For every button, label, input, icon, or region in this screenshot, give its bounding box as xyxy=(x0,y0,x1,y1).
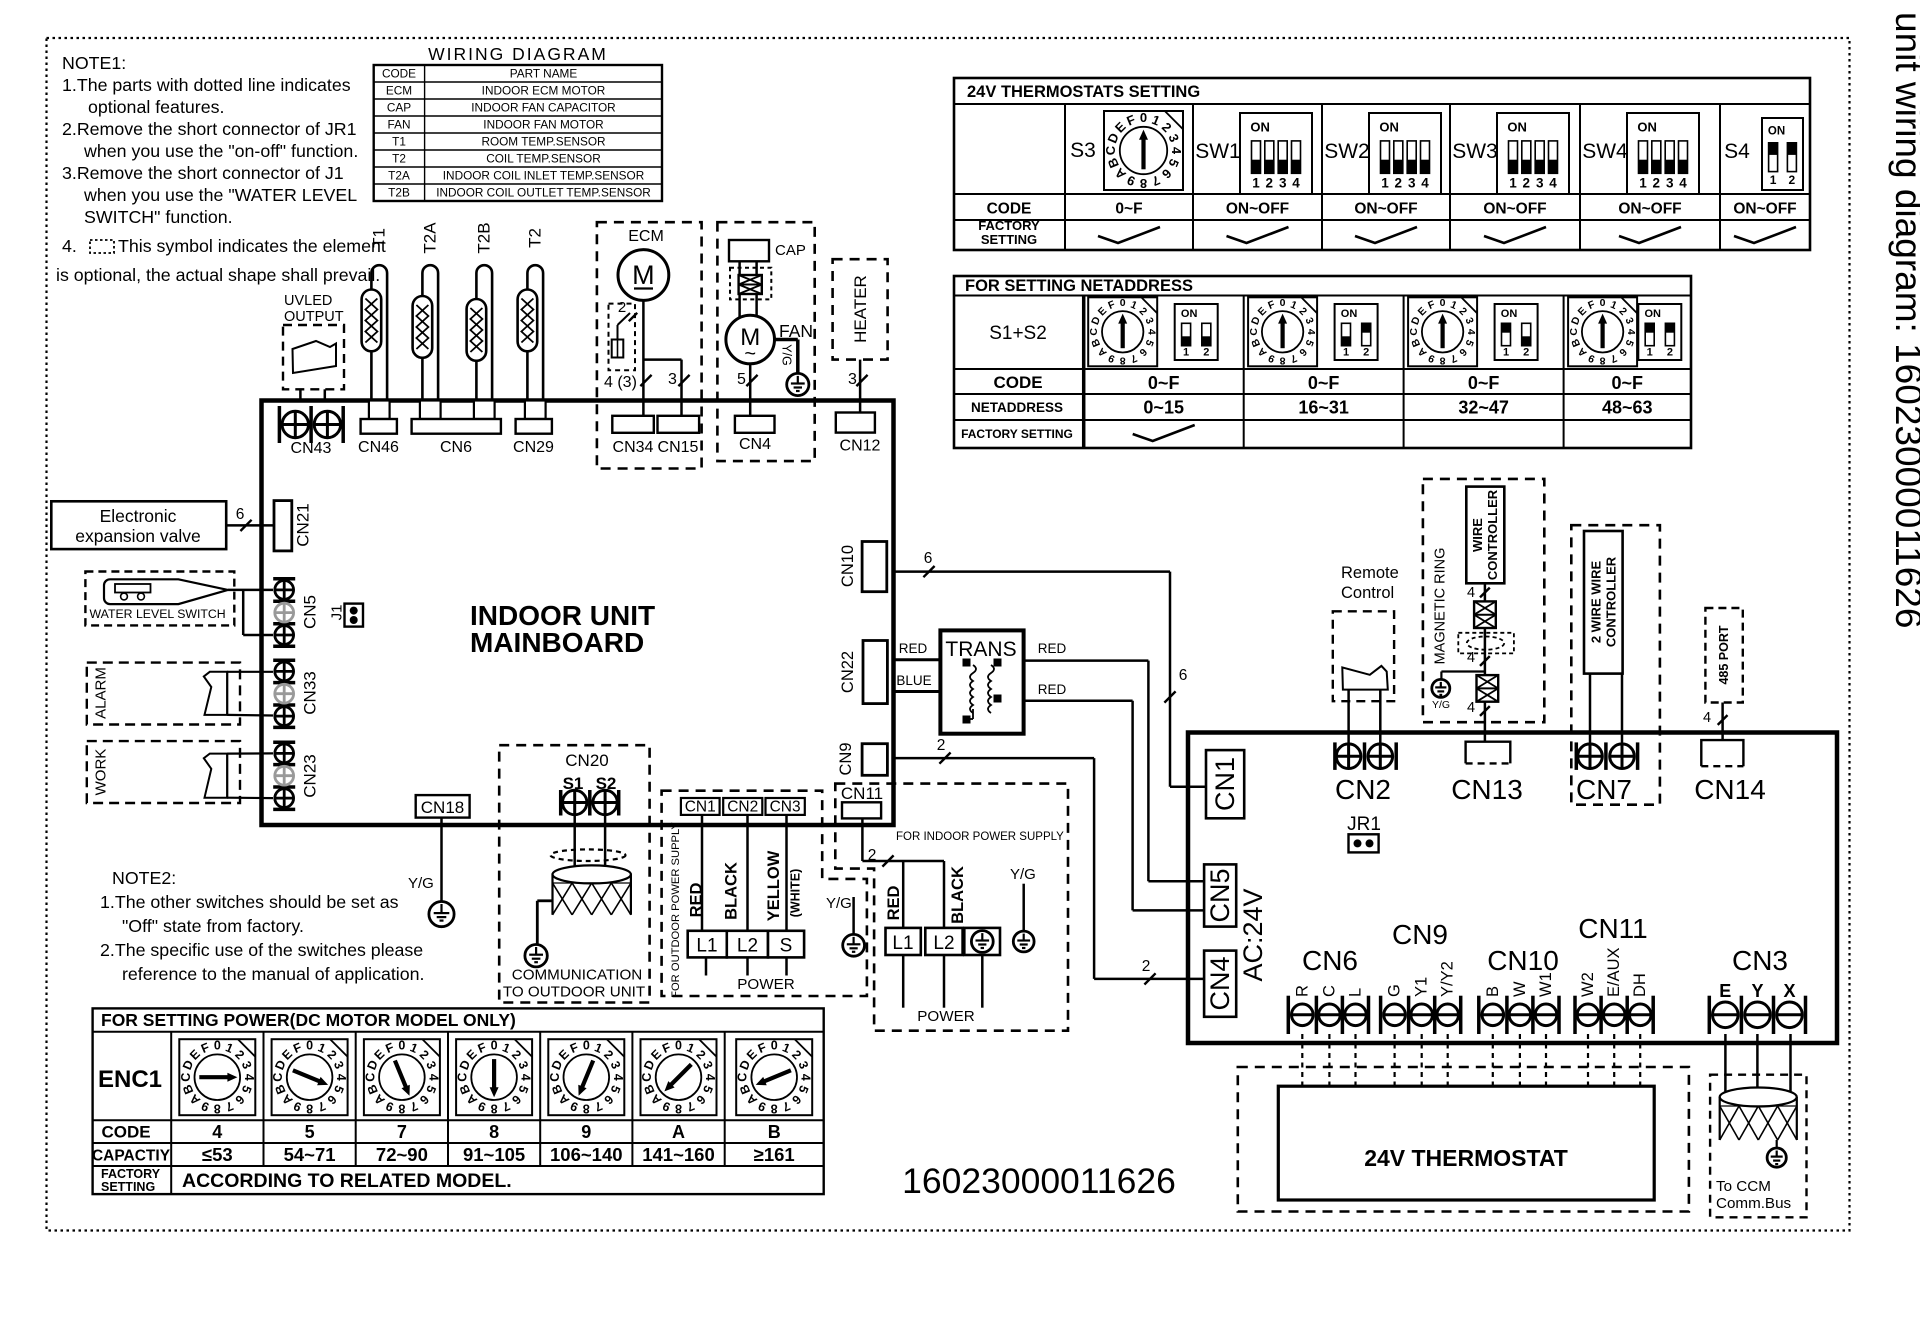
netaddress rotary+dip cell 2 xyxy=(1248,297,1378,417)
connector CN43 xyxy=(279,406,343,457)
svg-text:ON: ON xyxy=(1645,308,1662,320)
svg-text:1: 1 xyxy=(1639,176,1647,191)
wire fan to CN4 xyxy=(749,364,752,416)
485 port dashed box xyxy=(1705,608,1742,703)
svg-text:Y/G: Y/G xyxy=(408,875,434,892)
svg-text:4: 4 xyxy=(1145,329,1157,335)
wire to CN13 xyxy=(1484,702,1487,742)
svg-text:4: 4 xyxy=(1421,176,1429,191)
svg-text:Y1: Y1 xyxy=(1413,977,1431,997)
svg-text:48~63: 48~63 xyxy=(1602,398,1653,418)
svg-text:ON~OFF: ON~OFF xyxy=(1733,201,1796,218)
svg-text:ON: ON xyxy=(1341,308,1358,320)
svg-text:0: 0 xyxy=(675,1039,682,1053)
svg-text:ON: ON xyxy=(1250,120,1270,135)
thermostat interface board xyxy=(1188,733,1837,1044)
svg-text:ROOM TEMP.SENSOR: ROOM TEMP.SENSOR xyxy=(481,134,605,148)
svg-text:AC:24V: AC:24V xyxy=(1238,888,1268,981)
magnetic ring dashed ellipse xyxy=(1467,637,1504,650)
svg-text:C: C xyxy=(1088,328,1100,336)
svg-text:4: 4 xyxy=(1703,710,1711,726)
svg-text:Y/G: Y/G xyxy=(1010,866,1036,883)
svg-text:0~F: 0~F xyxy=(1468,373,1500,393)
svg-text:FACTORY SETTING: FACTORY SETTING xyxy=(961,427,1073,441)
svg-text:W2: W2 xyxy=(1579,972,1597,997)
svg-text:Y/Y2: Y/Y2 xyxy=(1439,961,1457,997)
svg-text:BLACK: BLACK xyxy=(949,866,967,924)
svg-text:T2B: T2B xyxy=(388,185,410,199)
rotary switch ENC1 code B xyxy=(736,1039,813,1165)
wire switch to CN5 xyxy=(228,590,273,635)
svg-text:3: 3 xyxy=(1536,176,1544,191)
code row values xyxy=(1115,201,1796,218)
connector CN20 S1 S2 xyxy=(561,751,619,816)
svg-text:This symbol indicates the elem: This symbol indicates the element xyxy=(118,236,386,256)
svg-text:SW2: SW2 xyxy=(1324,140,1370,163)
svg-text:INDOOR FAN MOTOR: INDOOR FAN MOTOR xyxy=(483,117,603,131)
svg-text:To CCM: To CCM xyxy=(1716,1178,1771,1195)
svg-text:2: 2 xyxy=(618,299,626,316)
FOR SETTING POWER (ENC1) table xyxy=(92,1008,824,1194)
connector CN22 xyxy=(839,641,887,704)
svg-text:2: 2 xyxy=(1789,173,1796,187)
svg-text:W: W xyxy=(1511,981,1529,997)
wire CN9 to CN4 2-wire xyxy=(894,758,1205,979)
wire remote to CN2 xyxy=(1349,690,1381,743)
svg-text:MAINBOARD: MAINBOARD xyxy=(470,627,644,658)
svg-text:1: 1 xyxy=(1647,347,1653,359)
svg-text:1: 1 xyxy=(1183,347,1189,359)
svg-text:ALARM: ALARM xyxy=(93,667,110,719)
svg-text:when you use the "WATER LEVEL: when you use the "WATER LEVEL xyxy=(83,185,357,205)
svg-text:DH: DH xyxy=(1631,973,1649,997)
wire color labels indoor xyxy=(885,866,967,924)
svg-text:CN5: CN5 xyxy=(1205,868,1235,922)
svg-text:WIRING DIAGRAM: WIRING DIAGRAM xyxy=(428,44,608,64)
svg-text:0: 0 xyxy=(1120,297,1126,309)
svg-text:INDOOR ECM MOTOR: INDOOR ECM MOTOR xyxy=(482,83,606,97)
svg-text:CN2: CN2 xyxy=(1335,774,1391,805)
stub wires below outdoor terminals xyxy=(706,957,787,975)
svg-text:HEATER: HEATER xyxy=(851,275,870,343)
svg-text:L1: L1 xyxy=(696,936,717,957)
svg-text:ON: ON xyxy=(1379,120,1399,135)
connector CN6 xyxy=(412,401,501,457)
svg-text:1: 1 xyxy=(1503,347,1509,359)
svg-text:SETTING: SETTING xyxy=(101,1180,155,1194)
svg-text:4: 4 xyxy=(1305,329,1317,335)
svg-text:FOR INDOOR POWER SUPPLY: FOR INDOOR POWER SUPPLY xyxy=(896,831,1064,843)
svg-text:ON: ON xyxy=(1501,308,1518,320)
terminal L1 indoor xyxy=(886,928,921,955)
svg-text:8: 8 xyxy=(1120,354,1126,366)
svg-text:SW1: SW1 xyxy=(1195,140,1241,163)
svg-text:C: C xyxy=(1320,985,1338,997)
wire CN2 to L2 xyxy=(746,815,749,931)
ALARM dashed box xyxy=(87,663,240,725)
svg-text:485 PORT: 485 PORT xyxy=(1717,625,1731,684)
Y/G ground indoor xyxy=(1010,866,1036,952)
svg-text:CN6: CN6 xyxy=(440,439,472,456)
wire S1 to cylinder xyxy=(573,815,576,880)
svg-text:2: 2 xyxy=(1142,958,1151,975)
svg-text:ON: ON xyxy=(1507,120,1527,135)
svg-text:3: 3 xyxy=(848,371,857,388)
wire filter to fan xyxy=(738,294,741,318)
svg-text:FOR OUTDOOR POWER SUPPLY: FOR OUTDOOR POWER SUPPLY xyxy=(670,822,682,998)
svg-text:C: C xyxy=(1248,328,1260,336)
svg-text:CN2: CN2 xyxy=(727,799,758,816)
svg-text:S3: S3 xyxy=(1070,139,1096,162)
filter dashed box xyxy=(730,268,771,300)
CN20 dashed box xyxy=(499,745,649,1002)
terminal L2 outdoor xyxy=(727,931,768,958)
svg-text:Y/G: Y/G xyxy=(1432,699,1450,711)
svg-text:ACCORDING TO RELATED MODEL.: ACCORDING TO RELATED MODEL. xyxy=(182,1170,512,1192)
svg-text:ON~OFF: ON~OFF xyxy=(1226,201,1289,218)
svg-text:BLUE: BLUE xyxy=(896,673,931,688)
magnetic ring dashed box xyxy=(1423,479,1544,722)
svg-text:CN9: CN9 xyxy=(837,742,855,775)
label 2 with slash indoor xyxy=(868,847,894,867)
svg-text:CN29: CN29 xyxy=(513,439,554,456)
dip switch SW4 xyxy=(1582,113,1699,194)
wire cylinder to ground xyxy=(537,901,552,944)
label 4 slash 2 xyxy=(1467,650,1490,666)
netaddress rotary+dip cell 4 xyxy=(1568,297,1681,417)
svg-text:expansion valve: expansion valve xyxy=(75,526,201,546)
svg-text:L2: L2 xyxy=(737,936,758,957)
terminal strip terminal CN9 xyxy=(1381,919,1461,1034)
Y/G ground magnetic xyxy=(1432,672,1485,712)
svg-text:CN3: CN3 xyxy=(1732,945,1788,976)
fuse in ecm box xyxy=(612,340,624,358)
svg-text:24V THERMOSTAT: 24V THERMOSTAT xyxy=(1364,1145,1568,1171)
wire CN3 to S xyxy=(785,815,788,931)
wire cap to filter xyxy=(738,261,741,275)
CCM dashed box xyxy=(1710,1075,1806,1218)
svg-text:MAGNETIC RING: MAGNETIC RING xyxy=(1433,548,1449,665)
svg-text:6: 6 xyxy=(236,506,245,523)
svg-text:CN11: CN11 xyxy=(841,784,883,803)
svg-text:Y/G: Y/G xyxy=(826,895,852,912)
CAP FAN dashed box xyxy=(717,222,814,461)
indoor unit mainboard xyxy=(262,401,894,826)
To CCM label xyxy=(1716,1178,1792,1212)
transformer TRANS xyxy=(940,630,1023,733)
terminal L1 outdoor xyxy=(688,931,727,958)
svg-text:2: 2 xyxy=(1203,347,1209,359)
svg-text:T2: T2 xyxy=(525,228,544,248)
remote control dashed box xyxy=(1333,611,1394,701)
svg-text:CODE: CODE xyxy=(101,1123,150,1142)
indoor power supply dashed box xyxy=(835,784,1068,1031)
svg-text:2: 2 xyxy=(1395,176,1403,191)
svg-text:ON~OFF: ON~OFF xyxy=(1618,201,1681,218)
svg-text:2.Remove the short connector o: 2.Remove the short connector of JR1 xyxy=(62,119,357,139)
connector CN46 xyxy=(358,401,399,457)
svg-text:3: 3 xyxy=(1408,176,1416,191)
svg-text:2: 2 xyxy=(1363,347,1369,359)
svg-text:6: 6 xyxy=(1179,667,1188,684)
svg-text:CN13: CN13 xyxy=(1451,774,1523,805)
svg-text:ON: ON xyxy=(1768,126,1785,138)
svg-text:8: 8 xyxy=(1280,354,1286,366)
rotary switch ENC1 code 8 xyxy=(456,1039,533,1165)
svg-text:COMMUNICATION: COMMUNICATION xyxy=(512,967,643,984)
svg-text:CODE: CODE xyxy=(382,66,416,80)
svg-text:optional features.: optional features. xyxy=(88,97,224,117)
svg-text:Remote: Remote xyxy=(1341,564,1399,582)
svg-text:CN1: CN1 xyxy=(685,799,716,816)
connector CN7 xyxy=(1576,742,1638,805)
svg-text:FAN: FAN xyxy=(388,117,411,131)
svg-text:0: 0 xyxy=(1280,297,1286,309)
svg-text:JR1: JR1 xyxy=(1347,814,1381,835)
terminal S outdoor xyxy=(768,931,804,958)
label 4 slash xyxy=(1467,585,1490,601)
jumper JR1 xyxy=(1347,814,1381,852)
svg-text:C: C xyxy=(640,1073,654,1082)
svg-text:8: 8 xyxy=(214,1102,221,1116)
svg-text:16023000011626: 16023000011626 xyxy=(902,1161,1176,1201)
svg-text:0: 0 xyxy=(491,1039,498,1053)
svg-text:0~F: 0~F xyxy=(1115,201,1142,218)
terminal strip terminal CN11 xyxy=(1575,913,1653,1034)
svg-text:2: 2 xyxy=(1653,176,1661,191)
svg-text:3: 3 xyxy=(1666,176,1674,191)
svg-text:CN4: CN4 xyxy=(1205,956,1235,1010)
svg-text:ON: ON xyxy=(1181,308,1198,320)
connector CN1 boxed xyxy=(1206,750,1244,818)
svg-text:1: 1 xyxy=(1252,176,1260,191)
connector CN5 xyxy=(273,579,319,647)
svg-text:C: C xyxy=(179,1073,193,1082)
svg-text:C: C xyxy=(1568,328,1580,336)
svg-text:2 WIRE WIRE: 2 WIRE WIRE xyxy=(1589,561,1604,644)
filter xbox xyxy=(739,275,762,294)
svg-text:INDOOR FAN CAPACITOR: INDOOR FAN CAPACITOR xyxy=(471,100,615,114)
svg-text:2: 2 xyxy=(1667,347,1673,359)
svg-text:2: 2 xyxy=(868,847,877,864)
svg-text:CODE: CODE xyxy=(993,373,1042,392)
svg-text:4: 4 xyxy=(1467,650,1475,666)
connector CN10 xyxy=(839,542,887,592)
connector CN3 label xyxy=(766,798,805,816)
svg-text:8: 8 xyxy=(1600,354,1606,366)
svg-text:SETTING: SETTING xyxy=(981,232,1037,247)
svg-text:2.The specific use of the swit: 2.The specific use of the switches pleas… xyxy=(100,940,423,960)
wire fan to ground Y/G xyxy=(775,340,798,374)
connector CN5 boxed xyxy=(1204,864,1236,926)
label 4(3) with slash xyxy=(604,374,652,391)
svg-text:4.: 4. xyxy=(62,236,77,256)
svg-text:Electronic: Electronic xyxy=(100,506,177,526)
connector CN1 label xyxy=(681,798,720,816)
label 6 with slash xyxy=(236,506,252,531)
svg-text:NOTE2:: NOTE2: xyxy=(112,868,176,888)
svg-text:C: C xyxy=(456,1073,470,1082)
outdoor power supply dashed box xyxy=(662,791,867,996)
svg-text:91~105: 91~105 xyxy=(463,1144,525,1165)
connector CN23 xyxy=(273,742,319,809)
svg-text:0~F: 0~F xyxy=(1308,373,1340,393)
svg-text:NOTE1:: NOTE1: xyxy=(62,53,126,73)
remote handset symbol xyxy=(1342,666,1388,690)
svg-text:4: 4 xyxy=(1292,176,1300,191)
terminal strip terminal CN3 xyxy=(1709,945,1805,1034)
svg-text:≥161: ≥161 xyxy=(754,1144,795,1165)
communication cylinder dashed arc xyxy=(551,849,626,861)
terminal strip terminal CN10 xyxy=(1479,945,1559,1034)
svg-text:UVLED: UVLED xyxy=(284,293,332,309)
2 wire controller dashed box xyxy=(1571,525,1660,805)
svg-text:8: 8 xyxy=(398,1102,405,1116)
wire controller box xyxy=(1466,487,1504,584)
svg-text:RED: RED xyxy=(899,641,928,656)
svg-text:4: 4 xyxy=(242,1074,256,1081)
svg-text:RED: RED xyxy=(885,886,903,921)
svg-text:A: A xyxy=(672,1122,685,1142)
svg-text:5: 5 xyxy=(305,1122,315,1142)
connector CN2 xyxy=(1335,742,1396,805)
rotary switch ENC1 code A xyxy=(640,1039,717,1165)
svg-text:L1: L1 xyxy=(892,933,913,954)
svg-text:FOR SETTING NETADDRESS: FOR SETTING NETADDRESS xyxy=(965,277,1193,295)
svg-text:WIRE: WIRE xyxy=(1470,518,1485,552)
connector CN12 xyxy=(836,413,881,455)
svg-text:FOR SETTING POWER(DC MOTOR MOD: FOR SETTING POWER(DC MOTOR MODEL ONLY) xyxy=(101,1010,516,1030)
svg-text:4: 4 xyxy=(1679,176,1687,191)
svg-text:24V THERMOSTATS SETTING: 24V THERMOSTATS SETTING xyxy=(967,83,1200,101)
connector CN18 xyxy=(416,795,470,818)
wire CN18 to ground xyxy=(440,818,443,902)
svg-text:TRANS: TRANS xyxy=(945,638,1016,661)
svg-text:CN43: CN43 xyxy=(291,440,332,457)
dashed wires to thermostat xyxy=(1302,1034,1640,1086)
svg-text:reference to the manual of app: reference to the manual of application. xyxy=(122,964,424,984)
svg-text:0: 0 xyxy=(1140,110,1147,125)
communication label xyxy=(503,967,645,1001)
svg-text:9: 9 xyxy=(581,1122,591,1142)
wire 485 to CN14 xyxy=(1721,703,1724,741)
svg-text:FACTORY: FACTORY xyxy=(101,1167,161,1181)
svg-text:1: 1 xyxy=(1381,176,1389,191)
svg-text:CN4: CN4 xyxy=(739,436,771,453)
connector CN33 xyxy=(273,660,319,727)
svg-text:8: 8 xyxy=(583,1102,590,1116)
svg-text:0: 0 xyxy=(398,1039,405,1053)
wire CN1 to L1 xyxy=(701,815,704,931)
svg-text:8: 8 xyxy=(771,1102,778,1116)
svg-text:L: L xyxy=(1347,988,1365,997)
svg-text:CN20: CN20 xyxy=(565,751,608,770)
svg-text:Y/G: Y/G xyxy=(780,344,794,366)
wire work to CN23 xyxy=(227,753,273,798)
label 3 with slash on CN15 wire xyxy=(668,371,690,388)
WORK dashed box xyxy=(87,741,240,803)
svg-text:CN5: CN5 xyxy=(301,595,320,629)
note4 dotted symbol xyxy=(90,240,114,253)
svg-text:1.The other switches should be: 1.The other switches should be set as xyxy=(100,892,399,912)
water level switch dashed box xyxy=(85,572,234,626)
svg-text:4 (3): 4 (3) xyxy=(604,374,637,391)
svg-text:Control: Control xyxy=(1341,584,1394,602)
svg-text:4: 4 xyxy=(519,1074,533,1081)
svg-text:CN10: CN10 xyxy=(1487,945,1559,976)
CCM cylinder xyxy=(1720,1088,1797,1141)
svg-text:E: E xyxy=(1719,981,1731,1001)
terminal L2 indoor xyxy=(925,928,962,955)
svg-text:0: 0 xyxy=(771,1039,778,1053)
svg-text:CN22: CN22 xyxy=(839,651,857,693)
svg-text:5: 5 xyxy=(737,371,746,388)
label 6 with slash vertical xyxy=(1164,667,1187,703)
wire CN11 to indoor terminals xyxy=(862,818,944,928)
svg-text:RED: RED xyxy=(688,883,706,918)
connector CN11 xyxy=(841,784,883,818)
svg-text:M: M xyxy=(632,260,655,290)
dip switch SW1 xyxy=(1195,113,1312,194)
svg-text:≤53: ≤53 xyxy=(202,1144,233,1165)
ferrite xbox upper xyxy=(1474,601,1496,628)
svg-text:CN21: CN21 xyxy=(294,503,313,546)
svg-text:COIL TEMP.SENSOR: COIL TEMP.SENSOR xyxy=(486,151,601,165)
svg-text:0: 0 xyxy=(1600,297,1606,309)
wire S2 to cylinder xyxy=(604,815,607,880)
svg-text:is optional, the actual shape: is optional, the actual shape shall prev… xyxy=(56,265,380,285)
label 2 with slash lower xyxy=(1142,958,1156,985)
svg-text:3: 3 xyxy=(1279,176,1287,191)
wire TRANS RED out upper xyxy=(1024,641,1204,881)
svg-text:C: C xyxy=(1103,145,1118,155)
svg-text:4: 4 xyxy=(703,1074,717,1081)
ecm connector sub dashed box xyxy=(609,304,636,371)
connector CN21 xyxy=(274,501,313,551)
svg-text:C: C xyxy=(736,1073,750,1082)
communication cylinder xyxy=(553,865,631,914)
svg-text:C: C xyxy=(363,1073,377,1082)
svg-text:C: C xyxy=(548,1073,562,1082)
svg-text:ON~OFF: ON~OFF xyxy=(1483,201,1546,218)
motor FAN xyxy=(726,315,813,365)
netaddress factory checkmark xyxy=(1133,425,1195,441)
WIRING DIAGRAM parts table xyxy=(374,44,662,201)
svg-text:POWER: POWER xyxy=(737,976,794,993)
svg-text:(WHITE): (WHITE) xyxy=(789,869,803,918)
svg-text:CN7: CN7 xyxy=(1576,774,1632,805)
wire CN10 to CN1 6-wire xyxy=(894,572,1207,787)
wire ring down xyxy=(1484,628,1487,675)
label 4 slash CN14 xyxy=(1703,710,1728,726)
wires CN3 to CCM cylinder xyxy=(1725,1034,1790,1104)
sensor T2B xyxy=(467,222,494,400)
terminal ground indoor xyxy=(964,928,1000,955)
svg-text:ON: ON xyxy=(1637,120,1657,135)
svg-text:1: 1 xyxy=(1509,176,1517,191)
svg-text:T2A: T2A xyxy=(388,168,410,182)
svg-text:4: 4 xyxy=(799,1074,813,1081)
svg-text:CAP: CAP xyxy=(387,100,411,114)
svg-text:0: 0 xyxy=(583,1039,590,1053)
wire alarm to CN33 xyxy=(227,672,273,716)
svg-text:0~15: 0~15 xyxy=(1143,398,1184,418)
connector CN34 xyxy=(612,416,654,456)
connector CN29 xyxy=(513,401,554,457)
svg-text:8: 8 xyxy=(489,1122,499,1142)
24V thermostat box xyxy=(1278,1086,1654,1200)
svg-text:1.The parts with dotted line i: 1.The parts with dotted line indicates xyxy=(62,75,351,95)
